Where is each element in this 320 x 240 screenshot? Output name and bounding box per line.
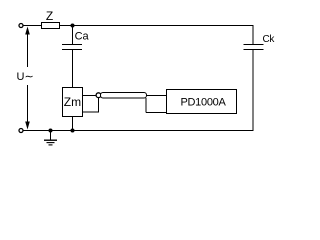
wire Zm to bottom bus (72, 117, 74, 131)
svg-text:Ca: Ca (75, 30, 90, 42)
coax connector circle (96, 93, 101, 98)
wire Zm to connector (shield) (83, 98, 99, 113)
voltage source U~ arrow (17, 27, 34, 130)
wire Ca to Zm (72, 50, 74, 89)
resistor Z (42, 9, 60, 29)
coax cable (101, 93, 147, 99)
node junction top (Ca tap) (71, 24, 75, 28)
wire bottom bus (23, 130, 253, 132)
wire Zm to connector (center) (83, 95, 96, 97)
svg-text:PD1000A: PD1000A (181, 97, 227, 109)
measuring receiver PD1000A (167, 90, 237, 114)
svg-text:Ck: Ck (263, 34, 276, 45)
wire cable shield to PD1000A (146, 98, 166, 113)
wire top bus right (60, 25, 254, 27)
capacitor Ck (244, 34, 276, 50)
ground (44, 131, 57, 145)
terminal top-left (19, 24, 23, 28)
capacitor Ca (62, 30, 90, 49)
svg-text:Zm: Zm (64, 95, 81, 109)
node junction bottom (Zm) (71, 129, 75, 133)
wire junction to Ca (72, 26, 74, 45)
svg-text:Z: Z (46, 9, 53, 23)
svg-text:U∼: U∼ (17, 71, 34, 83)
impedance Zm (63, 88, 83, 117)
wire Ck down to bottom bus (252, 50, 254, 131)
terminal bottom-left (19, 129, 23, 133)
node junction ground (49, 129, 53, 133)
wire top bus corner down to Ck (252, 26, 254, 45)
wire top bus left (23, 25, 42, 27)
wire cable to PD1000A (center) (147, 95, 167, 97)
